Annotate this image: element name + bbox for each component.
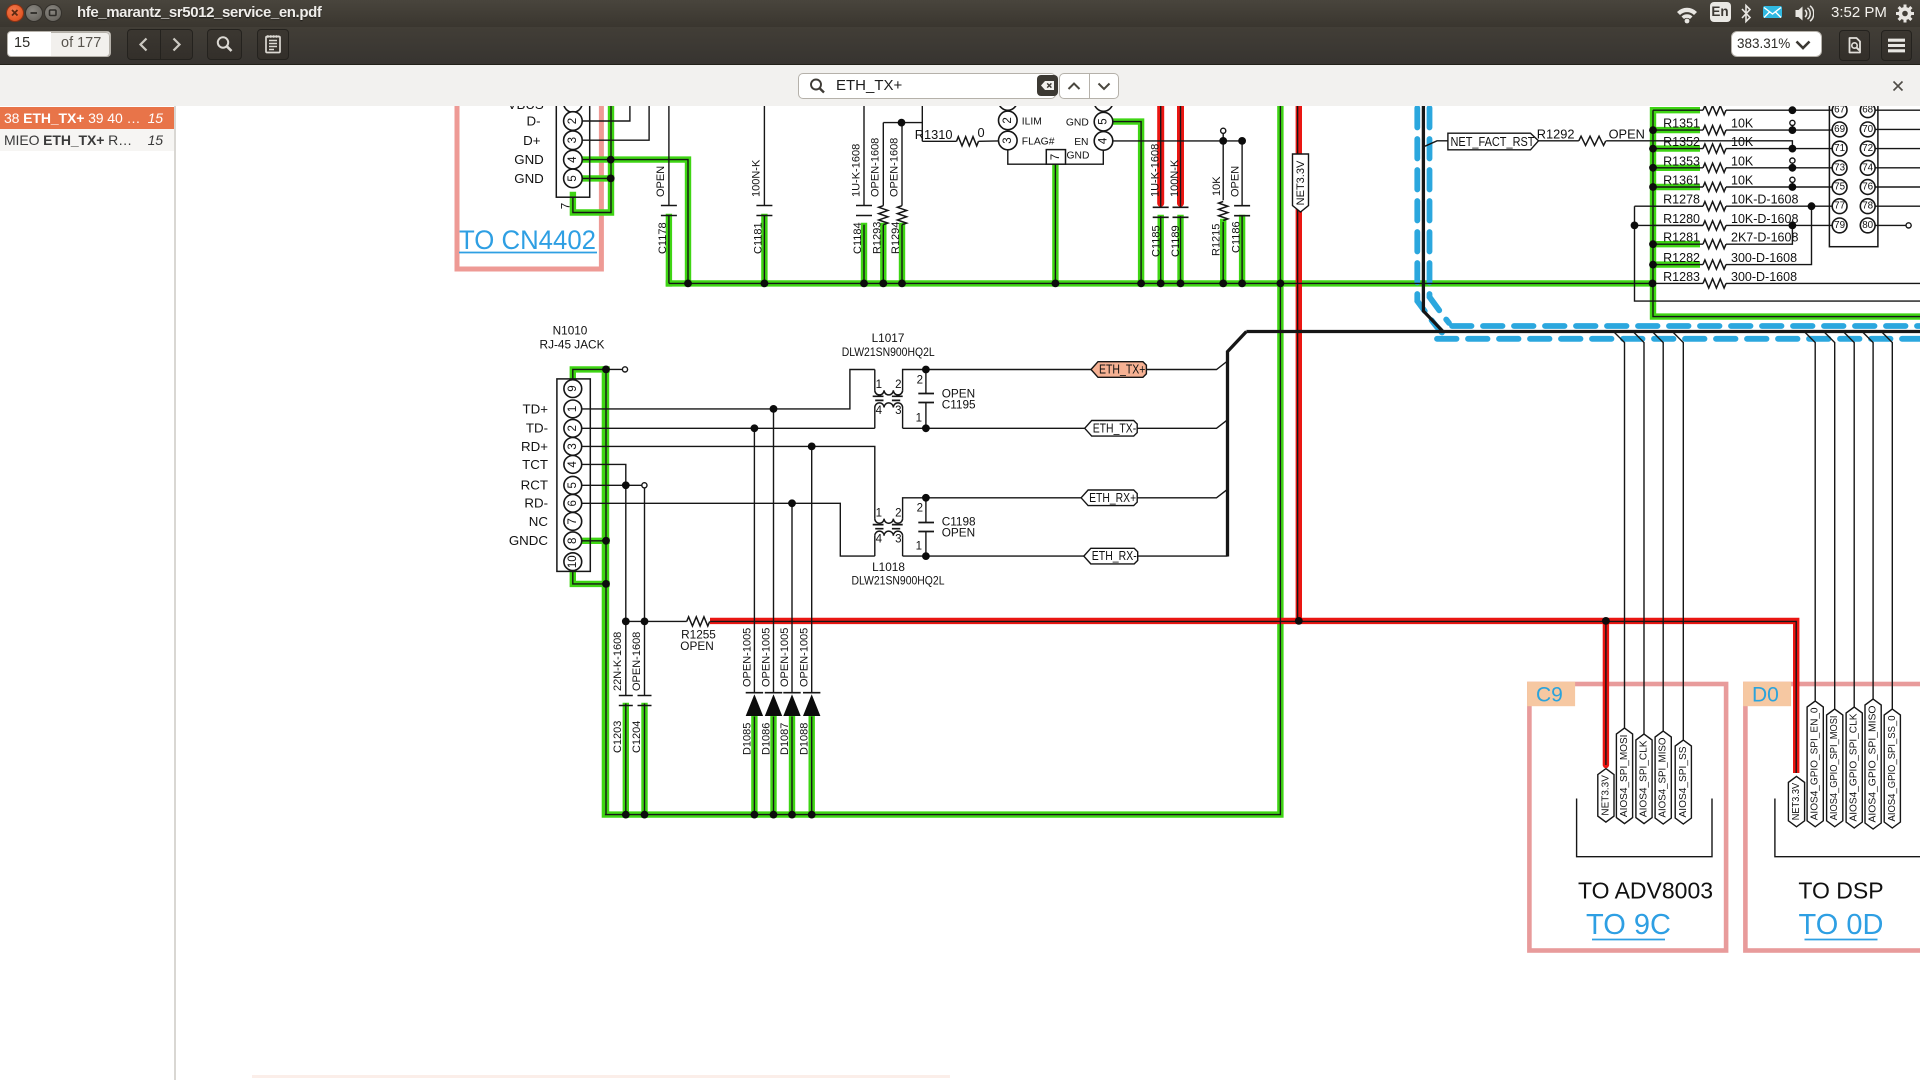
svg-text:D1087: D1087 [779, 723, 791, 755]
junction (1055.4,283.4) [1052, 280, 1060, 288]
IC gnd pad box 7 [1046, 150, 1065, 165]
junction (1141.1,283.4) [1137, 280, 1145, 288]
wire [903, 498, 1082, 519]
wire [1160, 216, 1162, 283]
junction (1792.4,130.1) [1789, 126, 1797, 134]
wire [903, 555, 1084, 557]
svg-text:D+: D+ [523, 133, 541, 148]
svg-text:OPEN-1608: OPEN-1608 [888, 138, 900, 197]
svg-text:2: 2 [917, 503, 923, 515]
junction (792,503.3) [788, 499, 796, 507]
svg-text:8: 8 [567, 538, 579, 544]
svg-text:OPEN: OPEN [1609, 126, 1645, 141]
wire [644, 704, 646, 815]
svg-text:10K-D-1608: 10K-D-1608 [1731, 193, 1798, 207]
svg-text:OPEN: OPEN [942, 526, 975, 540]
IC pin circles ILIM/FLAG#/GND/EN [999, 92, 1018, 111]
wire [811, 446, 813, 692]
junction (625.8,485.3) [622, 481, 630, 489]
wire D1088 to bus [809, 717, 815, 815]
wire [605, 100, 1281, 815]
wire GND pin4 to bus [582, 160, 688, 284]
wire [1775, 799, 1920, 857]
net label ETH_RX+ [1081, 490, 1137, 506]
junction (1298.8,620.9) [1295, 617, 1303, 625]
svg-text:TD+: TD+ [523, 401, 549, 416]
svg-text:OPEN-1005: OPEN-1005 [741, 628, 753, 687]
svg-text:TCT: TCT [522, 457, 548, 472]
junction (1792.4,110.2) [1789, 106, 1797, 114]
svg-text:R1280: R1280 [1663, 212, 1700, 226]
wire [1653, 243, 1703, 245]
capacitor C1195 [918, 394, 934, 403]
wire [1138, 555, 1228, 557]
RJ-45 jack N1010 box [557, 379, 590, 572]
svg-text:3: 3 [567, 443, 579, 449]
wire [773, 409, 775, 693]
wire [1726, 224, 1832, 226]
wire GND pin5 stub [582, 175, 611, 181]
svg-text:ETH_TX+: ETH_TX+ [1099, 363, 1145, 377]
sidebar search results [0, 106, 174, 1080]
wire [863, 225, 865, 284]
svg-text:10K-D-1608: 10K-D-1608 [1731, 212, 1798, 226]
wire [582, 100, 649, 140]
svg-text:2: 2 [895, 379, 901, 391]
junction (606,583.9) [602, 580, 610, 588]
svg-text:TO DSP: TO DSP [1798, 878, 1883, 904]
wire [1843, 332, 1854, 708]
wire [1008, 149, 1047, 164]
wire ladder row stub highlight [1653, 127, 1700, 133]
svg-text:RCT: RCT [521, 478, 548, 493]
resistor R1278 [1703, 202, 1726, 211]
wire [773, 717, 775, 815]
wire [874, 536, 876, 556]
wire [668, 216, 670, 284]
resistor R1215 [1219, 202, 1228, 221]
wire [582, 177, 611, 179]
svg-text:10K: 10K [1731, 117, 1754, 131]
wire [1425, 141, 1448, 146]
wire [1726, 205, 1832, 207]
diode D1088 [803, 692, 820, 694]
svg-text:C1184: C1184 [852, 222, 864, 254]
svg-text:1U-K-1608: 1U-K-1608 [1149, 144, 1161, 197]
junction (644.5,814.6) [641, 811, 649, 819]
junction (1242.1,140.9) [1238, 137, 1246, 145]
svg-text:AIOS4_GPIO_SPI_MOSI: AIOS4_GPIO_SPI_MOSI [1829, 716, 1840, 821]
junction (901.5,122.6) [898, 119, 906, 127]
svg-text:AIOS4_SPI_MOSI: AIOS4_SPI_MOSI [1619, 735, 1630, 818]
wire ladder row stub highlight [1653, 241, 1700, 247]
svg-text:73: 73 [1834, 162, 1845, 173]
diode D1086 [765, 692, 782, 694]
svg-text:AIOS4_SPI_MISO: AIOS4_SPI_MISO [1658, 737, 1669, 817]
wire [573, 369, 623, 379]
svg-text:4: 4 [567, 461, 579, 468]
svg-text:ETH_RX+: ETH_RX+ [1089, 491, 1136, 505]
svg-text:R1281: R1281 [1663, 231, 1700, 245]
wire [1672, 332, 1683, 741]
wire [883, 122, 922, 124]
system tray [1674, 3, 1700, 25]
wire R1293 to bus [880, 226, 886, 283]
junction (1792.4,225.4) [1789, 222, 1797, 230]
junction (1792.4,148.6) [1789, 145, 1797, 153]
junction (1652.5,283.4) [1649, 280, 1657, 288]
wire [1653, 205, 1703, 207]
svg-text:TO 0D: TO 0D [1799, 909, 1884, 941]
svg-text:RD+: RD+ [521, 439, 548, 454]
net NET3.3V red highlight C1185 [1157, 100, 1164, 203]
wire [1614, 332, 1625, 729]
junction (773.5,814.6) [770, 811, 778, 819]
svg-text:TO CN4402: TO CN4402 [459, 225, 596, 255]
wire [882, 123, 884, 206]
svg-text:FLAG#: FLAG# [1022, 136, 1055, 147]
svg-text:C1203: C1203 [612, 721, 624, 753]
wire [1241, 216, 1243, 284]
capacitor C1189 [1173, 207, 1189, 217]
svg-text:10K: 10K [1731, 174, 1754, 188]
svg-text:RJ-45 JACK: RJ-45 JACK [540, 338, 605, 352]
wire [1180, 100, 1182, 207]
wire [1875, 128, 1920, 130]
junction (625.8,621.4) [622, 618, 630, 626]
svg-text:2: 2 [567, 425, 579, 431]
svg-text:RD-: RD- [524, 496, 548, 511]
wire [1875, 186, 1920, 188]
wire [1875, 109, 1920, 111]
junction (1653,148.6) [1649, 145, 1657, 153]
svg-text:1: 1 [567, 406, 579, 412]
wire [753, 717, 755, 815]
junction (1223.2,140.9) [1219, 137, 1227, 145]
wire [1653, 109, 1703, 111]
svg-text:D-: D- [526, 114, 540, 129]
wire [625, 704, 627, 815]
resistor R1293 [879, 206, 888, 225]
wire [901, 123, 903, 206]
svg-text:9: 9 [567, 385, 579, 391]
svg-text:6: 6 [567, 500, 579, 506]
wire [1605, 621, 1607, 765]
wire C1204 to bus [641, 706, 647, 815]
svg-text:1U-K-1608: 1U-K-1608 [850, 144, 862, 197]
wire C1185 to bus [1157, 218, 1163, 283]
wire C1178 to bus [666, 217, 672, 283]
resistor R1352 [1703, 144, 1726, 153]
svg-text:OPEN-1005: OPEN-1005 [799, 628, 811, 687]
svg-text:4: 4 [1098, 137, 1110, 144]
svg-text:300-D-1608: 300-D-1608 [1731, 270, 1797, 284]
svg-text:D0: D0 [1752, 684, 1779, 707]
wire [1054, 164, 1056, 283]
svg-text:OPEN-1608: OPEN-1608 [870, 138, 882, 197]
wire [582, 446, 875, 518]
wire [1875, 148, 1920, 150]
svg-text:2: 2 [567, 118, 579, 124]
wire C1189 to bus [1177, 218, 1183, 283]
svg-text:NET3.3V: NET3.3V [1600, 775, 1611, 816]
svg-text:100N-K: 100N-K [751, 159, 763, 197]
svg-text:67: 67 [1834, 106, 1845, 116]
wire [1726, 206, 1812, 264]
wire [1726, 129, 1832, 131]
svg-text:71: 71 [1834, 143, 1845, 154]
svg-text:TO 9C: TO 9C [1586, 909, 1671, 941]
svg-text:AIOS4_SPI_CLK: AIOS4_SPI_CLK [1639, 740, 1650, 817]
wire [874, 370, 876, 391]
junction (610.7,159.6) [607, 156, 615, 164]
window title bar [0, 0, 1920, 27]
wire ladder row stub highlight [1653, 261, 1700, 267]
junction (925.9,497.8) [922, 494, 930, 502]
wire [668, 100, 670, 206]
svg-text:300-D-1608: 300-D-1608 [1731, 251, 1797, 265]
svg-text:78: 78 [1862, 201, 1873, 212]
svg-text:AIOS4_GPIO_SPI_EN_0: AIOS4_GPIO_SPI_EN_0 [1810, 707, 1821, 820]
svg-text:2: 2 [917, 375, 923, 387]
svg-text:GND: GND [1067, 151, 1090, 162]
wire GND highlight USB pin7 vertical [573, 100, 611, 213]
svg-text:L1017: L1017 [872, 331, 905, 345]
wire [1635, 206, 1920, 301]
wire [573, 570, 606, 584]
svg-text:R1310: R1310 [915, 127, 953, 142]
junction (1653,187.0) [1649, 183, 1657, 191]
thick ETH collector bus [1228, 332, 1247, 557]
wire [882, 225, 884, 284]
wire [791, 717, 793, 815]
junction (925.9,556.1) [922, 552, 930, 560]
svg-text:10K: 10K [1211, 176, 1223, 196]
wire [1652, 332, 1663, 732]
svg-text:D1086: D1086 [761, 723, 773, 755]
svg-text:77: 77 [1834, 201, 1845, 212]
wire [1066, 150, 1104, 164]
USB connector box [556, 88, 589, 197]
svg-text:OPEN: OPEN [680, 639, 713, 653]
wire [1653, 186, 1703, 188]
junction (610.7,178.4) [607, 175, 615, 183]
wire RJ45 pin8 stub [582, 538, 607, 544]
wire [863, 100, 865, 206]
wire [605, 369, 607, 814]
wire [625, 485, 627, 695]
svg-text:R1292: R1292 [1537, 126, 1575, 141]
wire RJ45 pin10 stub [573, 570, 607, 584]
resistor R1294 [897, 206, 906, 225]
wire ladder row stub highlight [1653, 107, 1700, 113]
wire [1653, 282, 1704, 284]
pink highlight box TO CN4402 [457, 100, 601, 269]
svg-text:7: 7 [561, 203, 573, 209]
wire [1577, 799, 1712, 857]
wire GND long vertical + bottom bus [605, 100, 1281, 815]
wire [1726, 148, 1832, 150]
wire ladder row stub highlight [1653, 145, 1700, 151]
wire [1297, 100, 1299, 621]
svg-text:DLW21SN900HQ2L: DLW21SN900HQ2L [852, 573, 945, 587]
connector-to-board box D0 [1745, 684, 1920, 951]
junction (754.4,428.3) [751, 424, 759, 432]
svg-text:10K: 10K [1731, 154, 1754, 168]
wire [925, 370, 927, 394]
svg-text:R1215: R1215 [1211, 224, 1223, 256]
wire [644, 488, 646, 696]
svg-text:2: 2 [1002, 117, 1014, 123]
svg-text:79: 79 [1834, 220, 1845, 231]
diode D1085 [746, 692, 763, 694]
wire [626, 620, 687, 622]
svg-text:C1178: C1178 [657, 222, 669, 254]
junction (1160.7,283.4) [1157, 280, 1165, 288]
svg-text:GND: GND [1066, 118, 1089, 129]
C9 net flags [1598, 769, 1614, 823]
wire [1137, 489, 1227, 498]
wire [902, 536, 904, 556]
wire C1203 to bus [623, 706, 629, 815]
wire [1653, 224, 1703, 226]
svg-text:70: 70 [1862, 124, 1873, 135]
capacitor C1184 [856, 206, 872, 216]
svg-text:L1018: L1018 [872, 560, 905, 574]
wire [925, 498, 927, 523]
svg-text:OPEN: OPEN [1229, 166, 1241, 197]
wire [1222, 222, 1224, 283]
wire [1875, 167, 1920, 169]
wire [903, 427, 1085, 429]
junction (902,283.4) [898, 280, 906, 288]
junction (773.5,408.9) [770, 405, 778, 413]
wire [763, 216, 765, 284]
wire [1653, 148, 1703, 150]
wire [925, 532, 927, 557]
wire [1635, 205, 1704, 207]
wire GND main bus [669, 280, 1653, 286]
wire [1881, 332, 1892, 710]
svg-text:10K: 10K [1731, 135, 1754, 149]
junction (754.4,814.6) [751, 811, 759, 819]
capacitor C1181 [756, 206, 772, 216]
svg-text:AIOS4_GPIO_SPI_SS_0: AIOS4_GPIO_SPI_SS_0 [1887, 715, 1898, 821]
svg-text:74: 74 [1862, 162, 1873, 173]
wire D1085 to bus [751, 717, 757, 815]
search bar row [0, 65, 1920, 107]
wire [1653, 264, 1703, 266]
wire D1087 to bus [789, 717, 795, 815]
junction (1792.4,187.0) [1789, 183, 1797, 191]
wire C1181 to bus [761, 217, 767, 283]
svg-text:72: 72 [1862, 143, 1873, 154]
wire [1726, 167, 1832, 169]
wire C1186 to bus [1239, 218, 1245, 283]
junction (1653,167.8) [1649, 164, 1657, 172]
junction (1811.5,206.2) [1808, 202, 1816, 210]
svg-text:5: 5 [1098, 118, 1110, 124]
transformer L1017 [875, 390, 903, 395]
svg-text:C1181: C1181 [753, 222, 765, 254]
svg-text:3: 3 [567, 137, 579, 143]
svg-text:3: 3 [1002, 137, 1014, 143]
svg-text:VBUS: VBUS [508, 106, 544, 112]
svg-text:R1282: R1282 [1663, 251, 1700, 265]
svg-text:R1283: R1283 [1663, 270, 1700, 284]
resistor R1280 [1703, 221, 1726, 230]
svg-text:AIOS4_GPIO_SPI_CLK: AIOS4_GPIO_SPI_CLK [1849, 713, 1860, 821]
wire [1635, 224, 1704, 226]
resistor R1255 [687, 617, 710, 626]
svg-text:R1352: R1352 [1663, 135, 1700, 149]
svg-text:ETH_TX-: ETH_TX- [1093, 421, 1137, 435]
capacitor C1178 [661, 206, 677, 216]
junction (1653,244.2) [1649, 240, 1657, 248]
resistor R1282 [1703, 260, 1726, 269]
wire [1875, 205, 1920, 207]
svg-text:GNDC: GNDC [509, 533, 549, 548]
junction (688,283.4) [684, 280, 692, 288]
wire [1241, 141, 1243, 206]
svg-text:C1189: C1189 [1170, 225, 1182, 257]
wire [1862, 332, 1873, 700]
svg-text:68: 68 [1862, 106, 1873, 116]
wire [582, 100, 630, 121]
wire [1633, 332, 1644, 735]
capacitor C1198 [918, 523, 934, 532]
wire [1824, 332, 1835, 710]
wire [1539, 140, 1579, 142]
svg-text:5: 5 [567, 482, 579, 488]
resistor R1351 [1703, 126, 1726, 135]
wire RJ45 pin9 shield [573, 369, 607, 379]
RJ-45 pin circles [564, 380, 582, 398]
junction (625.8,814.6) [622, 811, 630, 819]
wire ladder row stub highlight [1653, 184, 1700, 190]
svg-text:4: 4 [567, 156, 579, 163]
connector-to-board box C9 [1529, 684, 1726, 951]
wire [902, 408, 904, 429]
svg-text:80: 80 [1862, 220, 1873, 231]
svg-text:R1353: R1353 [1663, 154, 1700, 168]
wire [1160, 100, 1162, 207]
wire [1875, 224, 1906, 226]
svg-text:69: 69 [1834, 124, 1845, 135]
wire [753, 428, 755, 692]
junction (1792.4,167.8) [1789, 164, 1797, 172]
junction (1634.5,225.4) [1631, 222, 1639, 230]
wire R1294 to bus [899, 226, 905, 283]
net label ETH_TX+ (highlighted search hit) [1091, 362, 1146, 378]
wire C1184 to bus [861, 226, 867, 283]
resistor R1361 [1703, 182, 1726, 191]
svg-text:75: 75 [1834, 182, 1845, 193]
junction (792,814.6) [788, 811, 796, 819]
svg-text:7: 7 [567, 518, 579, 524]
wire [1146, 361, 1227, 370]
resistor R1353 [1703, 163, 1726, 172]
wire [811, 717, 813, 815]
svg-text:C1204: C1204 [631, 721, 643, 753]
svg-text:GND: GND [514, 152, 544, 167]
wire [582, 427, 875, 429]
svg-text:AIOS4_SPI_SS: AIOS4_SPI_SS [1678, 746, 1689, 817]
USB pins [564, 94, 583, 113]
svg-text:C1186: C1186 [1230, 221, 1242, 253]
svg-text:3: 3 [895, 405, 901, 417]
resistor R1283 [1703, 279, 1726, 288]
